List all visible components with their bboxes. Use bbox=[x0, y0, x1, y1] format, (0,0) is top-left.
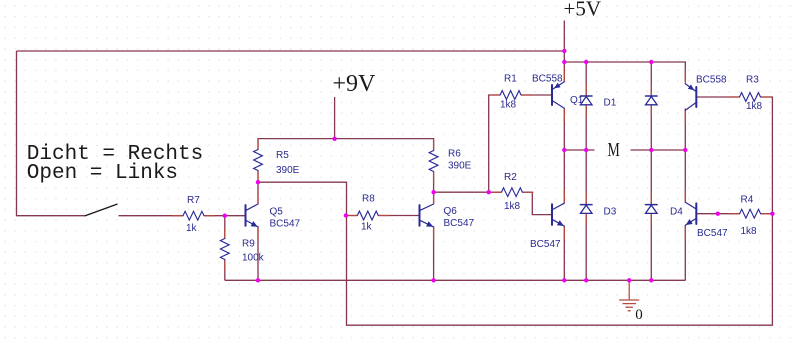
svg-text:R1: R1 bbox=[504, 74, 517, 85]
svg-text:D1: D1 bbox=[604, 98, 617, 109]
svg-text:R5: R5 bbox=[276, 150, 289, 161]
svg-text:+9V: +9V bbox=[333, 71, 377, 97]
svg-text:BC547: BC547 bbox=[530, 239, 561, 250]
svg-text:Open = Links: Open = Links bbox=[27, 162, 178, 185]
svg-text:Q6: Q6 bbox=[444, 206, 458, 217]
svg-text:390E: 390E bbox=[276, 165, 300, 176]
svg-text:Q5: Q5 bbox=[270, 207, 284, 218]
svg-text:BC558: BC558 bbox=[532, 74, 563, 85]
svg-text:1k8: 1k8 bbox=[741, 226, 758, 237]
svg-text:R4: R4 bbox=[741, 195, 754, 206]
svg-text:100k: 100k bbox=[242, 253, 265, 264]
svg-text:1k: 1k bbox=[361, 222, 373, 233]
svg-text:D4: D4 bbox=[670, 207, 683, 218]
svg-text:BC547: BC547 bbox=[697, 228, 728, 239]
svg-text:0: 0 bbox=[635, 307, 643, 323]
svg-text:R2: R2 bbox=[504, 172, 517, 183]
svg-text:390E: 390E bbox=[448, 161, 472, 172]
svg-text:1k8: 1k8 bbox=[500, 100, 517, 111]
svg-text:BC558: BC558 bbox=[696, 75, 727, 86]
svg-text:R3: R3 bbox=[746, 75, 759, 86]
svg-text:R9: R9 bbox=[242, 239, 255, 250]
svg-text:D3: D3 bbox=[604, 207, 617, 218]
svg-text:Q1: Q1 bbox=[570, 95, 584, 106]
svg-text:R7: R7 bbox=[187, 195, 200, 206]
svg-text:1k8: 1k8 bbox=[746, 101, 763, 112]
svg-text:1k8: 1k8 bbox=[504, 201, 521, 212]
svg-text:1k: 1k bbox=[186, 223, 198, 234]
svg-text:BC547: BC547 bbox=[444, 218, 475, 229]
svg-text:BC547: BC547 bbox=[270, 219, 301, 230]
svg-text:M: M bbox=[608, 139, 620, 161]
svg-text:R6: R6 bbox=[448, 149, 461, 160]
svg-text:R8: R8 bbox=[362, 194, 375, 205]
svg-text:+5V: +5V bbox=[564, 0, 602, 20]
